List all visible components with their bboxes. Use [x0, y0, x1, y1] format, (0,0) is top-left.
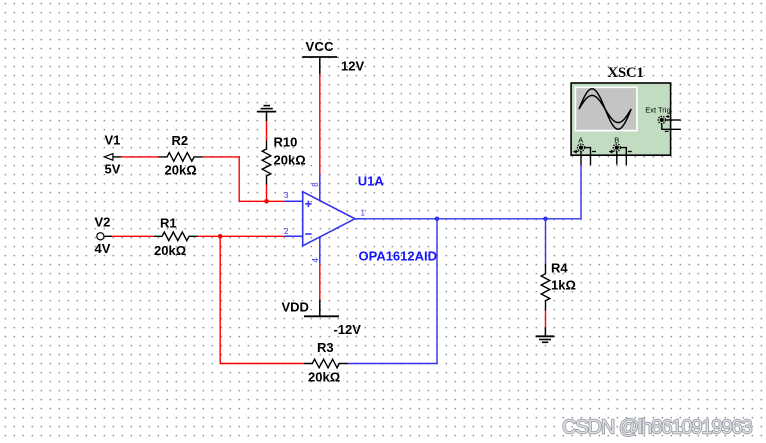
op-amp U1A	[284, 173, 437, 263]
wire output to scope A	[580, 165, 582, 219]
svg-text:R1: R1	[160, 216, 177, 231]
svg-text:1kΩ: 1kΩ	[551, 278, 576, 293]
wire op-amp output	[365, 218, 581, 220]
svg-text:20kΩ: 20kΩ	[274, 153, 306, 168]
wire R3 to node B	[220, 236, 304, 363]
svg-text:20kΩ: 20kΩ	[154, 243, 186, 258]
wire V2 to R1	[112, 235, 153, 237]
wire VCC to op-amp pin 8	[319, 74, 321, 174]
svg-text:2: 2	[284, 227, 289, 236]
wire R4 to ground	[545, 311, 547, 328]
svg-text:VCC: VCC	[306, 39, 335, 54]
watermark	[562, 417, 753, 439]
junction output/feedback	[435, 217, 440, 222]
svg-text:Ext Trig: Ext Trig	[645, 105, 670, 114]
svg-text:20kΩ: 20kΩ	[165, 163, 197, 178]
scope Ext Trig terminal	[658, 116, 681, 132]
scope channel B terminal	[610, 136, 632, 165]
svg-text:20kΩ: 20kΩ	[308, 370, 340, 385]
scope channel A terminal	[574, 136, 596, 165]
pin 1 label	[361, 209, 366, 218]
svg-text:4: 4	[311, 258, 320, 263]
wire R10 to node A	[266, 185, 268, 202]
wire ground to R10	[266, 121, 268, 140]
svg-text:V2: V2	[95, 215, 111, 230]
svg-text:3: 3	[284, 191, 289, 200]
junction output/R4	[543, 217, 548, 222]
svg-text:R10: R10	[274, 135, 298, 150]
resistor R1	[154, 216, 198, 259]
svg-text:4V: 4V	[95, 241, 111, 256]
oscilloscope XSC1	[571, 65, 671, 155]
ground (top, above R10)	[257, 106, 276, 122]
wire V1 to R2	[121, 156, 159, 158]
svg-text:V1: V1	[105, 133, 121, 148]
pin 8 label	[311, 182, 320, 187]
resistor R10	[262, 135, 305, 185]
resistor R3	[304, 340, 348, 385]
junction node A	[264, 199, 269, 204]
svg-text:8: 8	[311, 182, 320, 187]
svg-text:B: B	[614, 136, 619, 145]
resistor R2	[159, 133, 203, 178]
wire feedback down-left	[348, 219, 437, 364]
wire R1 to node B (op-amp - input)	[198, 235, 285, 237]
wire output to R4	[545, 219, 547, 264]
svg-text:R2: R2	[172, 133, 189, 148]
pin 4 label	[311, 258, 320, 263]
power VCC	[302, 39, 364, 74]
svg-text:R4: R4	[551, 261, 568, 276]
svg-text:VDD: VDD	[282, 300, 309, 315]
svg-text:12V: 12V	[341, 59, 364, 74]
svg-text:5V: 5V	[105, 162, 121, 177]
svg-text:OPA1612AID: OPA1612AID	[359, 249, 438, 264]
source V1	[104, 133, 121, 177]
junction node B	[218, 234, 223, 239]
svg-text:CSDN @lh8610919963: CSDN @lh8610919963	[562, 417, 753, 439]
pin 3 label	[284, 191, 289, 200]
wire VDD to op-amp pin 4	[319, 264, 321, 300]
svg-text:-12V: -12V	[334, 322, 362, 337]
svg-text:R3: R3	[317, 340, 334, 355]
pin 2 label	[284, 227, 289, 236]
power VDD	[282, 299, 362, 337]
resistor R4	[541, 261, 576, 311]
ground (below R4)	[536, 327, 555, 342]
svg-text:XSC1: XSC1	[608, 65, 644, 81]
svg-text:A: A	[578, 136, 583, 145]
source V2	[95, 215, 113, 257]
svg-text:U1A: U1A	[358, 173, 385, 188]
wire R2 to node A (op-amp + input)	[203, 157, 285, 201]
svg-text:1: 1	[361, 209, 366, 218]
